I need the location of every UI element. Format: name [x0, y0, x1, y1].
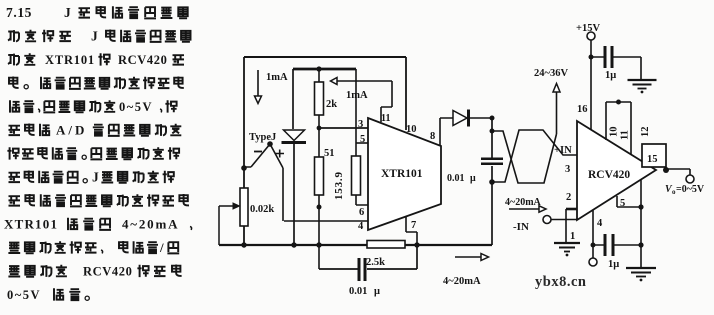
svg-text:3: 3: [358, 119, 363, 130]
svg-text:16: 16: [577, 104, 588, 115]
svg-text:1mA: 1mA: [346, 90, 368, 101]
svg-text:24~36V: 24~36V: [534, 68, 568, 79]
svg-text:153.9: 153.9: [333, 171, 345, 200]
svg-text:12: 12: [640, 127, 651, 138]
svg-text:0.01: 0.01: [349, 286, 367, 297]
svg-text:8: 8: [430, 131, 435, 142]
svg-text:XTR101: XTR101: [45, 53, 95, 67]
svg-text:+15V: +15V: [576, 23, 600, 34]
svg-text:51: 51: [324, 148, 335, 159]
svg-text:11: 11: [381, 113, 390, 124]
svg-text:4~20mA: 4~20mA: [505, 197, 542, 208]
svg-text:5: 5: [360, 134, 365, 145]
svg-text:1mA: 1mA: [266, 72, 288, 83]
svg-text:RCV420: RCV420: [118, 53, 167, 67]
svg-text:11: 11: [620, 130, 631, 140]
svg-text:RCV420: RCV420: [83, 265, 132, 279]
svg-text:J: J: [92, 170, 99, 185]
svg-text:4: 4: [358, 221, 364, 232]
svg-text:A/D: A/D: [56, 123, 87, 138]
svg-text:-IN: -IN: [513, 221, 529, 233]
svg-text:4: 4: [597, 218, 603, 229]
svg-text:XTR101: XTR101: [381, 168, 423, 180]
svg-text:0~5V: 0~5V: [119, 100, 153, 114]
svg-text:3: 3: [565, 164, 570, 175]
svg-text:15: 15: [647, 154, 658, 165]
svg-text:10: 10: [609, 127, 620, 138]
svg-text:RCV420: RCV420: [588, 169, 630, 181]
svg-text:5: 5: [620, 198, 625, 209]
svg-text:/: /: [159, 240, 164, 255]
svg-text:0.01: 0.01: [447, 173, 465, 184]
svg-text:μ: μ: [374, 286, 380, 297]
svg-text:XTR101: XTR101: [4, 217, 58, 232]
svg-text:2k: 2k: [326, 99, 337, 110]
svg-text:ybx8.cn: ybx8.cn: [535, 274, 586, 290]
svg-text:7.15: 7.15: [6, 5, 32, 20]
svg-text:4~20mA: 4~20mA: [443, 276, 481, 287]
svg-text:0.02k: 0.02k: [250, 204, 274, 215]
svg-text:2.5k: 2.5k: [366, 257, 385, 268]
svg-text:μ: μ: [470, 173, 476, 184]
svg-text:0~5V: 0~5V: [7, 288, 41, 302]
svg-text:1μ: 1μ: [605, 70, 616, 81]
svg-text:6: 6: [359, 207, 364, 218]
svg-text:J: J: [91, 29, 98, 44]
svg-text:2: 2: [566, 192, 571, 203]
svg-text:J: J: [64, 5, 71, 20]
svg-text:1: 1: [570, 231, 575, 242]
svg-text:1μ: 1μ: [608, 259, 619, 270]
svg-text:10: 10: [406, 124, 417, 135]
svg-text:7: 7: [411, 220, 416, 231]
svg-text:=0~5V: =0~5V: [676, 184, 705, 195]
svg-text:TypeJ: TypeJ: [249, 132, 276, 143]
svg-text:4~20mA: 4~20mA: [122, 217, 179, 232]
svg-text:+IN: +IN: [554, 145, 572, 156]
